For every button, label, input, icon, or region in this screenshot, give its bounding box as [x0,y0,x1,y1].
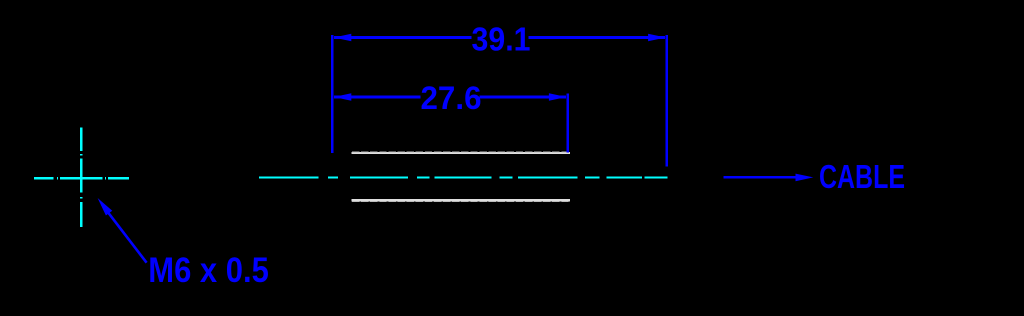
cable arrowhead [796,174,814,182]
center mark crosshair vertical dashes [80,127,82,227]
svg-text:CABLE: CABLE [819,159,905,196]
arrowhead 27.6 left [334,93,352,101]
dimension line 27.6 [334,96,566,99]
m6 leader line [102,205,147,263]
cable leader line [724,176,798,179]
arrowhead 39.1 right [648,34,666,42]
thread top line [352,152,571,154]
svg-text:M6 x 0.5: M6 x 0.5 [148,251,268,290]
svg-text:39.1: 39.1 [472,21,531,58]
extension line left (shared 39.1 / 27.6) [331,35,334,153]
extension line right 27.6 [566,94,569,153]
arrowhead 27.6 right [549,93,567,101]
thread top rough edge [352,151,570,153]
main centerline dash-dot cyan [259,176,668,178]
arrowhead 39.1 left [334,34,352,42]
dimension line 39.1 [334,36,665,39]
svg-text:27.6: 27.6 [421,80,482,116]
center mark crosshair horizontal dashes [34,177,129,179]
thread bottom line [352,199,571,201]
thread bottom rough edge [352,200,570,202]
m6 arrowhead [98,198,113,216]
extension line right 39.1 [665,35,668,166]
